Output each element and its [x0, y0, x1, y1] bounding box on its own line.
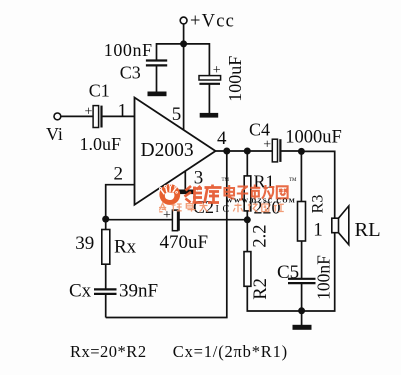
svg-text:C: C: [223, 204, 230, 215]
svg-text:Cx=1/(2πb*R1): Cx=1/(2πb*R1): [173, 342, 288, 361]
wire speaker to ground rail: [302, 233, 335, 311]
svg-text:Rx=20*R2: Rx=20*R2: [70, 342, 147, 361]
pin 3 wire: [184, 171, 186, 190]
ground below node D: [293, 325, 312, 330]
wire node D to ground: [301, 311, 303, 325]
resistor R2: [244, 252, 251, 287]
capacitor C4 electrolytic: [263, 138, 280, 162]
svg-text:Rx: Rx: [114, 237, 137, 258]
input terminal Vi: [54, 113, 61, 120]
wire node B to R1: [246, 151, 248, 176]
node output A: [223, 148, 230, 155]
svg-text:TM: TM: [289, 178, 297, 183]
node F: [102, 216, 109, 223]
svg-text:R2: R2: [251, 278, 271, 300]
svg-text:TM: TM: [222, 178, 230, 183]
svg-text:4: 4: [217, 128, 227, 149]
wire Zobel drop from node A to bottom loop: [106, 151, 227, 318]
svg-text:R3: R3: [310, 195, 327, 214]
wire Vcc node to capacitor 100uF: [184, 44, 210, 76]
svg-text:100nF: 100nF: [314, 255, 334, 300]
resistor Rx: [102, 230, 110, 265]
svg-text:I: I: [216, 204, 219, 215]
svg-text:C5: C5: [277, 262, 299, 283]
wire Vcc node to pin 5: [183, 44, 185, 130]
capacitor 100uF electrolytic: [199, 63, 221, 84]
wire Vcc node to C3: [157, 44, 184, 60]
wire C3 to ground: [156, 65, 158, 91]
node Vcc junction: [180, 40, 187, 47]
capacitor C5: [288, 279, 316, 283]
wire 100uF to ground: [208, 84, 210, 113]
wire R1 to node E: [246, 211, 248, 252]
wire C1 to pin 1: [102, 115, 135, 117]
wire R3 to C5: [301, 241, 303, 279]
svg-text:100uF: 100uF: [225, 56, 245, 102]
svg-text:RL: RL: [355, 219, 381, 241]
capacitor Cx: [94, 289, 117, 294]
svg-text:Vi: Vi: [46, 124, 63, 144]
svg-text:39nF: 39nF: [119, 281, 158, 302]
wire terminal to Vcc node: [183, 24, 185, 44]
wire Vi to C1: [61, 115, 93, 117]
svg-text:+: +: [263, 138, 271, 153]
svg-text:1: 1: [313, 219, 323, 240]
wire C2 to node F: [106, 219, 173, 221]
svg-text:WWW.DZSC.COM: WWW.DZSC.COM: [226, 198, 296, 205]
svg-text:2.2: 2.2: [251, 224, 271, 247]
node E feedback: [244, 216, 251, 223]
node output B: [244, 148, 251, 155]
resistor R1: [244, 176, 251, 211]
svg-text:2: 2: [114, 164, 124, 185]
svg-text:100nF: 100nF: [104, 40, 153, 60]
capacitor C1 electrolytic: [85, 105, 102, 128]
svg-text:1: 1: [118, 101, 128, 122]
wire node E to C2: [179, 219, 248, 221]
svg-text:+: +: [163, 208, 171, 223]
wire node C to R3: [300, 151, 302, 201]
svg-text:+: +: [213, 63, 221, 78]
svg-text:39: 39: [75, 233, 94, 254]
wire C4 to node C: [280, 150, 301, 152]
wire C5 to node D: [301, 283, 303, 311]
svg-text:C1: C1: [89, 80, 110, 100]
+Vcc terminal: [180, 17, 187, 24]
wire R2 to ground rail: [247, 286, 301, 311]
ground below C3: [148, 92, 167, 97]
ground at pin 3: [177, 190, 195, 195]
svg-text:C4: C4: [249, 120, 270, 140]
svg-text:1.0uF: 1.0uF: [80, 134, 122, 154]
capacitor C2 electrolytic: [163, 208, 179, 231]
op-amp U1 D2003: [135, 98, 216, 205]
svg-text:C3: C3: [120, 62, 141, 82]
svg-text:D2003: D2003: [141, 140, 194, 161]
svg-text:5: 5: [172, 104, 182, 125]
ground below 100uF: [200, 113, 219, 118]
capacitor C3: [146, 61, 167, 66]
svg-text:3: 3: [194, 168, 204, 189]
svg-text:+: +: [85, 105, 93, 120]
pin 2 wire: [106, 185, 135, 219]
speaker RL: [332, 206, 349, 245]
node D ground: [298, 307, 305, 314]
node C: [298, 148, 305, 155]
wire Cx to bottom loop: [105, 294, 107, 318]
svg-text:470uF: 470uF: [160, 232, 209, 253]
svg-text:1000uF: 1000uF: [285, 128, 342, 148]
resistor R3: [298, 202, 306, 242]
wire Rx to Cx: [105, 264, 107, 289]
wire node C to speaker: [301, 151, 334, 218]
svg-text:Cx: Cx: [69, 281, 92, 302]
wire node F to Rx: [105, 219, 107, 229]
wire output pin 4 to C4: [216, 150, 273, 152]
svg-text:+Vcc: +Vcc: [190, 12, 235, 32]
watermark: [159, 178, 297, 215]
